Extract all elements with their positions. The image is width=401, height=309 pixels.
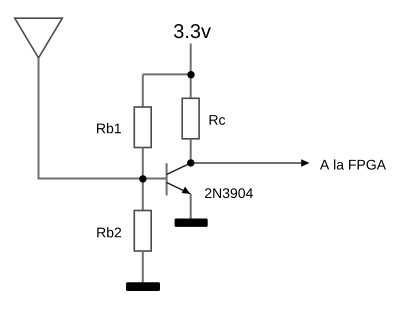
arrowhead to FPGA <box>301 159 309 167</box>
label Rb2 <box>97 227 121 237</box>
label Rb1 <box>97 123 121 133</box>
node base junction <box>139 175 146 182</box>
node collector junction <box>187 159 194 166</box>
resistor Rb2 <box>134 211 151 252</box>
wire antenna to base node <box>39 58 143 179</box>
wire Rc top <box>190 74 192 98</box>
antenna ANT1 <box>15 18 63 58</box>
ground (bottom left) <box>126 282 160 291</box>
resistor Rb1 <box>134 107 151 148</box>
wire Rb1 bottom to base node <box>142 148 144 179</box>
ground (emitter) <box>175 219 208 227</box>
wire Rc bottom to collector <box>190 139 192 163</box>
wire base node to transistor base <box>143 178 167 180</box>
wire base node to Rb2 <box>142 179 144 211</box>
label 3.3v <box>174 24 211 38</box>
resistor Rc <box>182 98 199 139</box>
wire emitter to ground <box>190 194 192 219</box>
label 2N3904 <box>205 188 253 198</box>
wire Rb1 top <box>142 74 144 107</box>
transistor Q1 2N3904 <box>167 163 191 196</box>
label A la FPGA <box>320 159 386 169</box>
wire collector to FPGA arrow <box>191 162 302 164</box>
wire top horizontal to Rb1 branch <box>143 73 191 75</box>
label Rc <box>210 115 226 125</box>
wire Rb2 bottom to ground <box>142 251 144 282</box>
node top junction <box>187 71 194 78</box>
wire 3.3v supply vertical <box>190 44 192 75</box>
